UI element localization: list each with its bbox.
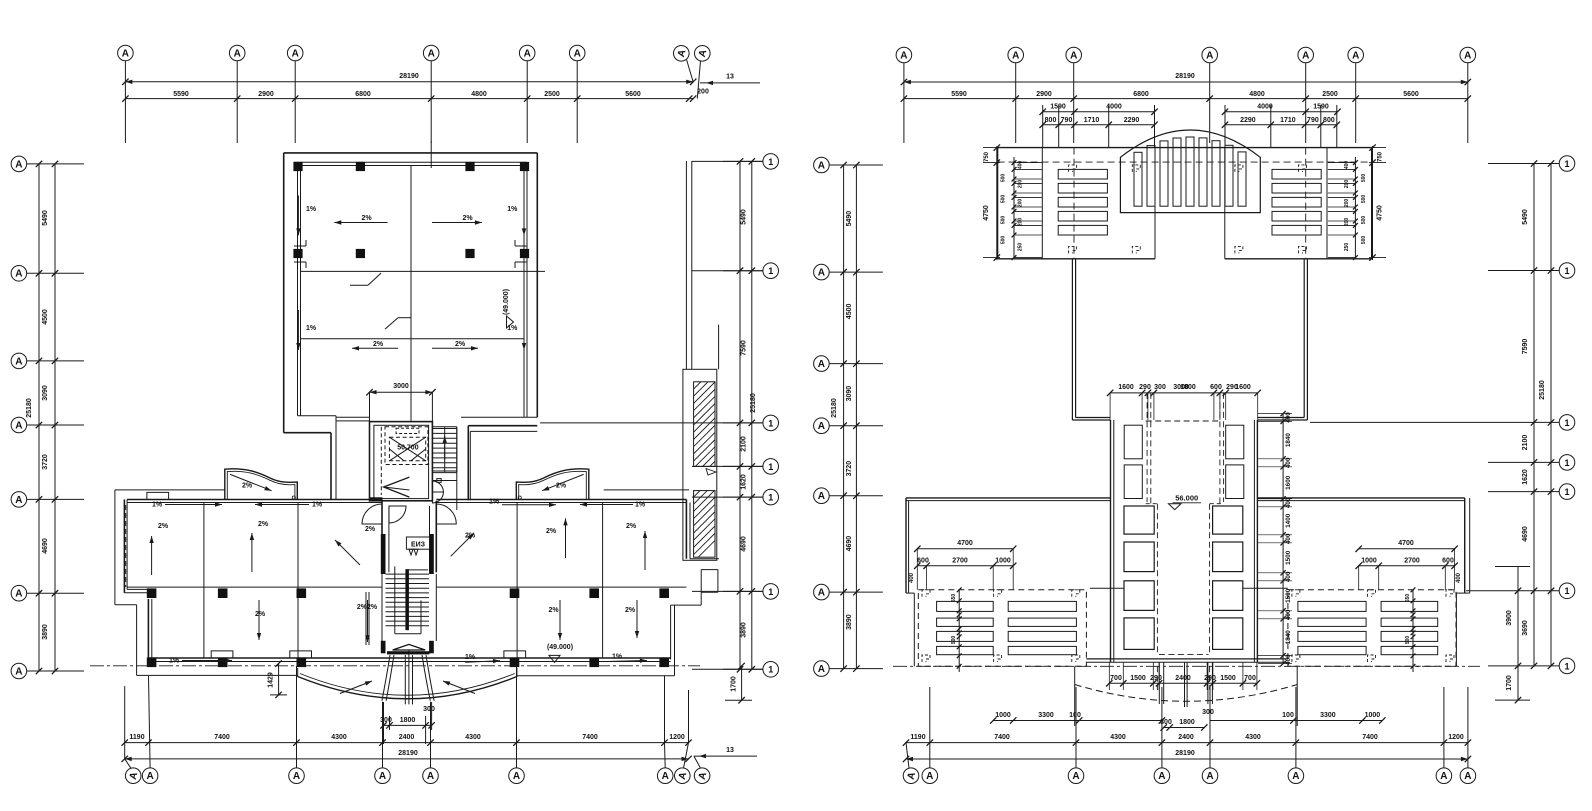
svg-text:200: 200 <box>1018 180 1024 189</box>
left plan upper block: center dividing line <box>410 166 412 421</box>
svg-text:3090: 3090 <box>846 386 853 402</box>
left plan upper block: slope arrows row1 2% <box>334 222 387 224</box>
right plan: bottom grid leader lines <box>906 743 909 769</box>
svg-text:1000: 1000 <box>995 712 1011 719</box>
svg-text:A: A <box>15 420 22 431</box>
svg-text:A: A <box>15 589 22 600</box>
svg-text:1710: 1710 <box>1280 117 1296 124</box>
svg-text:2%: 2% <box>455 341 466 348</box>
svg-text:2%: 2% <box>548 607 559 614</box>
left plan: top dimension segments 5590/2900/6800/4800/2500/5600/200 <box>125 98 693 100</box>
svg-text:1: 1 <box>768 266 773 276</box>
svg-text:25180: 25180 <box>750 393 757 413</box>
svg-text:A: A <box>1440 771 1447 782</box>
left plan lower wing: lower-left inset wall <box>147 599 149 659</box>
svg-text:1500: 1500 <box>1220 675 1236 682</box>
svg-text:A: A <box>818 268 825 279</box>
svg-text:500: 500 <box>951 636 957 645</box>
left plan: right 1700 sub-dim <box>741 666 743 700</box>
left plan vestibule: side walls <box>381 501 383 573</box>
right plan: sub-dimension line 4000/1590 right <box>1225 111 1338 113</box>
svg-text:A: A <box>1464 771 1471 782</box>
svg-text:3090: 3090 <box>42 385 49 401</box>
left plan lower wing: slope arrows top row 2% <box>151 536 153 575</box>
left plan: grid stubs over hatch <box>540 422 763 424</box>
svg-text:4690: 4690 <box>741 536 748 552</box>
svg-text:2100: 2100 <box>1522 435 1529 451</box>
svg-text:200: 200 <box>1344 199 1350 208</box>
left plan entry: door swing curves <box>382 655 390 701</box>
svg-text:1: 1 <box>768 157 773 167</box>
svg-text:500: 500 <box>1361 216 1367 225</box>
svg-text:1190: 1190 <box>910 734 925 741</box>
left plan lower wing: bottom notches <box>211 651 233 658</box>
svg-text:4300: 4300 <box>1110 734 1126 741</box>
left plan left canopy: 2% arrow <box>230 474 271 490</box>
svg-text:1%: 1% <box>612 654 623 661</box>
left plan lower wing: black columns mid row <box>147 588 157 598</box>
right plan slab left: dashed corner brackets <box>922 590 930 597</box>
left plan stairs right of shaft <box>432 426 456 428</box>
left plan: bottom canopy curve <box>298 677 517 699</box>
right plan upper structure: horizontal dashed line <box>998 161 1372 163</box>
svg-text:700: 700 <box>1244 675 1256 682</box>
right plan upper structure: left wing louvers <box>1058 169 1107 179</box>
left plan lower wing: right edge walls <box>685 500 687 559</box>
svg-text:3720: 3720 <box>42 454 49 470</box>
left plan: bottom 28190 line <box>125 758 689 760</box>
left plan upper block: 3000 dimension above shaft <box>370 391 433 393</box>
svg-text:500: 500 <box>1405 636 1411 645</box>
right plan tower: dashed corridor verticals lower with jog <box>1156 504 1158 655</box>
svg-text:A: A <box>818 664 825 675</box>
left plan upper block: slope labels row2 1% <box>297 310 299 350</box>
left plan bottom canopy: slope arrows <box>340 681 372 694</box>
left plan: left dimension chain with bubbles <box>11 156 27 172</box>
svg-text:500: 500 <box>1361 236 1367 245</box>
left plan lower wing: black columns bottom row <box>147 658 157 668</box>
hatch lines <box>694 360 715 381</box>
svg-text:500: 500 <box>1001 174 1007 183</box>
right plan upper structure: louver tick stack left <box>1013 157 1015 258</box>
svg-text:1: 1 <box>1564 487 1569 497</box>
svg-text:A: A <box>1464 50 1471 61</box>
left plan lower wing: top-left notch parapet <box>147 492 169 499</box>
left plan elevator: dashed shaft <box>385 427 428 465</box>
right plan: top dimension segments <box>904 98 1468 100</box>
right plan upper structure: louver tick stack right <box>1354 157 1356 258</box>
svg-text:A: A <box>379 771 386 782</box>
svg-text:2100: 2100 <box>741 436 748 452</box>
svg-text:A: A <box>427 771 434 782</box>
svg-text:500: 500 <box>1001 216 1007 225</box>
left plan stair shaft: door arcs right side <box>432 481 443 492</box>
svg-text:300: 300 <box>1154 384 1166 391</box>
svg-text:5490: 5490 <box>1522 209 1529 225</box>
svg-text:400: 400 <box>1285 654 1292 665</box>
svg-text:4300: 4300 <box>1245 734 1261 741</box>
left plan vestibule: canopy arcs flanking <box>362 504 382 524</box>
svg-text:1200: 1200 <box>1448 734 1464 741</box>
left plan lower wing: bottom edge walls <box>148 657 670 659</box>
svg-text:2700: 2700 <box>952 558 968 565</box>
svg-text:1: 1 <box>1564 418 1569 428</box>
svg-text:290: 290 <box>1150 675 1162 682</box>
svg-text:1620: 1620 <box>1522 469 1529 485</box>
svg-text:1000: 1000 <box>1361 558 1377 565</box>
right plan slab left: 4700 dim <box>917 548 1013 550</box>
right plan tower: top dim chain 1600/290/300... <box>1110 392 1258 394</box>
svg-text:1840: 1840 <box>1285 433 1292 448</box>
svg-text:2900: 2900 <box>1036 91 1052 98</box>
right plan: sub-dimension line 800/790/1710/2290 left <box>1043 124 1155 126</box>
svg-text:2400: 2400 <box>399 734 415 741</box>
right plan upper structure: dashed grid verticals <box>1073 148 1075 259</box>
svg-text:1600: 1600 <box>1118 384 1134 391</box>
svg-text:400: 400 <box>909 572 915 583</box>
svg-text:1: 1 <box>1564 266 1569 276</box>
svg-text:300: 300 <box>1202 709 1214 716</box>
left plan vestibule: black wall segments <box>381 534 386 574</box>
svg-text:1%: 1% <box>635 502 646 509</box>
left plan stair shaft: inner wall lines <box>374 425 429 498</box>
right plan upper structure: dashed corner brackets <box>1069 165 1077 172</box>
right plan tower: right side vertical dim chain 400/1840/... <box>1282 414 1284 664</box>
svg-text:600: 600 <box>917 558 929 565</box>
svg-text:A: A <box>122 48 129 59</box>
svg-text:28190: 28190 <box>1175 750 1195 757</box>
svg-text:4500: 4500 <box>846 304 853 320</box>
right plan slab: top edge walls <box>906 497 1111 499</box>
left plan lower wing: top edge walls <box>127 499 382 501</box>
svg-text:A: A <box>292 48 299 59</box>
svg-text:290: 290 <box>1139 384 1151 391</box>
svg-text:1: 1 <box>1564 159 1569 169</box>
right plan arch: vertical slats <box>1134 152 1142 206</box>
svg-text:A: A <box>524 48 531 59</box>
svg-text:400: 400 <box>1285 571 1292 582</box>
svg-text:400: 400 <box>1285 457 1292 468</box>
svg-text:200: 200 <box>1018 218 1024 227</box>
svg-text:1500: 1500 <box>1130 675 1146 682</box>
svg-text:5590: 5590 <box>173 91 189 98</box>
right plan tower: entry stubs <box>1158 662 1160 704</box>
svg-text:4690: 4690 <box>1522 526 1529 542</box>
left plan: right canopy curved <box>516 469 589 500</box>
right plan: sub-dimension line 2290/1710/790/800 right <box>1225 124 1337 126</box>
svg-text:2400: 2400 <box>1178 734 1194 741</box>
svg-text:A: A <box>15 159 22 170</box>
right plan upper structure: outer rectangle <box>998 147 1372 149</box>
svg-text:50.700: 50.700 <box>397 445 419 452</box>
right plan: bottom dims 300/1800 center <box>1164 727 1205 729</box>
right plan: sub-dim extension lines <box>1042 105 1044 148</box>
right plan: tower top stubs <box>1072 419 1110 421</box>
svg-text:500: 500 <box>1001 195 1007 204</box>
svg-text:A: A <box>1072 771 1079 782</box>
svg-text:A: A <box>818 491 825 502</box>
svg-text:(49.000): (49.000) <box>547 644 573 651</box>
svg-text:400: 400 <box>1344 161 1350 170</box>
svg-text:7590: 7590 <box>741 340 748 356</box>
svg-text:A: A <box>818 421 825 432</box>
svg-text:1: 1 <box>768 418 773 428</box>
svg-text:A: A <box>1158 771 1165 782</box>
svg-text:1%: 1% <box>152 502 163 509</box>
svg-text:400: 400 <box>1285 497 1292 508</box>
right plan: section dash-dot line <box>893 665 1480 667</box>
left plan: bottom 13 leader <box>694 755 757 757</box>
svg-text:1: 1 <box>768 587 773 597</box>
svg-text:5590: 5590 <box>951 91 967 98</box>
svg-text:1: 1 <box>1564 586 1569 596</box>
left plan: top dimension line 28190 <box>125 81 693 83</box>
svg-text:25180: 25180 <box>831 398 838 418</box>
svg-text:4690: 4690 <box>42 538 49 554</box>
svg-text:5600: 5600 <box>625 91 641 98</box>
left plan: top-right 13 leader <box>700 82 760 84</box>
svg-text:A: A <box>1292 771 1299 782</box>
right plan tower: square rooms left column <box>1124 506 1154 534</box>
svg-text:2%: 2% <box>361 215 372 222</box>
right plan: right dimension chain with bubbles <box>1559 156 1575 172</box>
right plan slab left: louver slats <box>937 601 994 611</box>
svg-text:400: 400 <box>1285 533 1292 544</box>
svg-text:1000: 1000 <box>995 558 1011 565</box>
svg-text:200: 200 <box>697 89 709 96</box>
left plan vestibule: interior door arc <box>389 506 406 523</box>
right plan upper structure: right wing louvers <box>1272 169 1321 179</box>
left plan entry: black threshold bar <box>387 651 430 654</box>
svg-text:13: 13 <box>726 747 734 754</box>
left plan upper block: interior horizontal lines <box>301 270 546 272</box>
svg-text:2%2%: 2%2% <box>357 604 378 611</box>
svg-text:1590: 1590 <box>1050 104 1066 111</box>
svg-text:A: A <box>15 666 22 677</box>
right plan: bottom grid bubbles <box>901 766 920 785</box>
svg-text:A: A <box>1070 50 1077 61</box>
svg-text:1190: 1190 <box>129 734 144 741</box>
svg-text:1600: 1600 <box>1285 475 1292 490</box>
svg-text:2%: 2% <box>255 611 266 618</box>
svg-text:2%: 2% <box>373 341 384 348</box>
right plan slab left: 600/2700/1000 dim <box>917 565 1013 567</box>
left plan upper block: outer wall rectangle <box>284 152 538 154</box>
right plan upper structure: wing inner verticals <box>1041 148 1043 259</box>
svg-text:4500: 4500 <box>42 309 49 325</box>
svg-text:1: 1 <box>1564 458 1569 468</box>
svg-text:A: A <box>574 48 581 59</box>
svg-text:(49.000): (49.000) <box>503 289 510 315</box>
svg-text:2%: 2% <box>258 521 269 528</box>
right plan slab right: louver slats <box>1298 601 1366 611</box>
svg-text:7400: 7400 <box>994 734 1010 741</box>
left plan lower wing: outer parapet boundary <box>115 489 225 491</box>
svg-text:A: A <box>513 771 520 782</box>
left plan: bottom main dimension chain <box>125 742 689 744</box>
left plan elevator: dashed counterweight box <box>396 428 419 433</box>
svg-text:2%: 2% <box>365 526 376 533</box>
svg-text:790: 790 <box>1307 117 1319 124</box>
svg-text:4700: 4700 <box>1398 540 1414 547</box>
right plan tower: bottom slab edge lines <box>1086 658 1288 660</box>
right plan: bottom main dimension chain <box>906 742 1468 744</box>
svg-text:1500: 1500 <box>1285 550 1292 565</box>
svg-text:750: 750 <box>1378 151 1384 162</box>
svg-text:A: A <box>1302 50 1309 61</box>
svg-text:5490: 5490 <box>741 209 748 225</box>
svg-text:2500: 2500 <box>1322 91 1338 98</box>
svg-text:2700: 2700 <box>1404 558 1420 565</box>
svg-text:500: 500 <box>1361 195 1367 204</box>
svg-text:A: A <box>1352 50 1359 61</box>
svg-text:A: A <box>662 771 669 782</box>
svg-text:4300: 4300 <box>465 734 481 741</box>
right plan tower: side walls <box>1110 420 1112 662</box>
svg-text:ЕИЗ: ЕИЗ <box>411 542 426 549</box>
svg-text:25180: 25180 <box>1539 380 1546 400</box>
left plan lower wing: interior vertical lines <box>203 503 205 659</box>
left plan lower wing: dashed inner line left <box>125 505 127 587</box>
svg-text:4800: 4800 <box>471 91 487 98</box>
svg-text:1%: 1% <box>169 658 180 665</box>
svg-text:1%: 1% <box>507 206 518 213</box>
svg-text:400: 400 <box>1285 412 1292 423</box>
svg-text:7400: 7400 <box>582 734 598 741</box>
svg-text:2290: 2290 <box>1240 117 1256 124</box>
svg-text:A: A <box>15 356 22 367</box>
svg-text:2%: 2% <box>626 523 637 530</box>
svg-text:2290: 2290 <box>1124 117 1140 124</box>
svg-text:4690: 4690 <box>846 536 853 552</box>
svg-text:4750: 4750 <box>983 205 990 221</box>
svg-text:6800: 6800 <box>1133 91 1149 98</box>
svg-text:1: 1 <box>768 665 773 675</box>
left plan vestibule: EU3 boxed label with triangles <box>406 537 429 549</box>
svg-text:550: 550 <box>1405 594 1411 603</box>
right plan upper structure: central arch <box>1120 130 1260 213</box>
svg-text:200: 200 <box>1344 180 1350 189</box>
left plan upper block: bottom-right step walls <box>461 416 537 418</box>
svg-text:550: 550 <box>951 594 957 603</box>
left plan upper block: slope break symbols <box>350 284 368 286</box>
right plan: 3900 and 1700 sub-dims right <box>1517 567 1519 701</box>
svg-text:3890: 3890 <box>42 624 49 640</box>
svg-text:1800: 1800 <box>400 717 416 724</box>
svg-text:750: 750 <box>984 151 990 162</box>
right plan upper structure: 750/4750 dim right <box>1372 146 1374 260</box>
svg-text:1000: 1000 <box>1365 712 1381 719</box>
right plan: left dimension chain with bubbles <box>814 157 830 173</box>
svg-text:100: 100 <box>1282 712 1294 719</box>
svg-text:250: 250 <box>1344 243 1350 252</box>
svg-text:1500: 1500 <box>1285 588 1292 603</box>
right plan slab: right louver area dashed outline <box>1288 590 1456 667</box>
right plan: connector corridor walls <box>1071 259 1073 420</box>
left plan: hatched neighbor wall strip <box>685 161 687 369</box>
svg-text:A: A <box>293 771 300 782</box>
svg-text:3720: 3720 <box>846 461 853 477</box>
left plan: left canopy curved <box>225 469 297 500</box>
right plan tower: square rooms right column <box>1213 506 1243 534</box>
svg-text:3900: 3900 <box>1506 610 1513 626</box>
left plan upper block: black columns <box>293 162 302 171</box>
right plan slab: right edge walls <box>1464 498 1466 593</box>
svg-text:1710: 1710 <box>1084 117 1100 124</box>
svg-text:400: 400 <box>1018 161 1024 170</box>
svg-text:800: 800 <box>1323 117 1335 124</box>
svg-text:A: A <box>428 48 435 59</box>
left plan upper block: bottom-left step walls <box>284 432 331 434</box>
left plan lower wing: right boundary step shapes <box>690 558 719 560</box>
svg-text:600: 600 <box>1210 384 1222 391</box>
right plan tower: dashed corridor verticals upper <box>1146 393 1148 502</box>
left plan right canopy: 2% arrow <box>542 474 583 490</box>
svg-text:13: 13 <box>726 74 734 81</box>
right plan: bottom dims 100/3300/1000 right <box>1210 720 1382 722</box>
svg-text:3300: 3300 <box>1320 712 1336 719</box>
svg-text:2%: 2% <box>242 483 253 490</box>
svg-text:300: 300 <box>380 717 392 724</box>
right plan: sub-dimension line 1590/4000 left <box>1043 111 1155 113</box>
left plan: top grid bubbles A <box>118 45 134 61</box>
left plan: right dimension chain with bubbles <box>763 154 779 170</box>
svg-text:1%: 1% <box>489 499 500 506</box>
right plan upper structure: 750/4750 dim left <box>996 146 998 260</box>
right plan slab: center tick stacks <box>958 590 960 672</box>
svg-text:3300: 3300 <box>1038 712 1054 719</box>
right plan slab right: dashed corner brackets <box>1292 590 1300 597</box>
svg-text:4750: 4750 <box>1377 205 1384 221</box>
right plan slab right: 4700 dim <box>1359 548 1455 550</box>
left plan upper block: wall notches at mid columns <box>294 245 306 247</box>
left plan lower wing: left edge walls <box>123 500 125 593</box>
right plan slab: left edge walls <box>905 498 907 593</box>
left plan lower wing: interior mid horizontal line <box>127 586 382 588</box>
svg-text:4300: 4300 <box>331 734 347 741</box>
left plan stair shaft: outer walls <box>370 422 433 501</box>
svg-text:3890: 3890 <box>846 614 853 630</box>
left plan: section dash-dot line <box>90 665 700 667</box>
svg-text:A: A <box>234 48 241 59</box>
svg-text:1700: 1700 <box>731 676 738 692</box>
svg-text:2%: 2% <box>556 483 567 490</box>
svg-text:7590: 7590 <box>1522 339 1529 355</box>
left plan stair shaft: black wall chunk bottom-left <box>370 497 383 501</box>
svg-text:A: A <box>146 771 153 782</box>
svg-text:200: 200 <box>1344 218 1350 227</box>
svg-text:600: 600 <box>1442 558 1454 565</box>
left plan: bottom grid bubbles <box>124 766 143 785</box>
svg-text:2500: 2500 <box>544 91 560 98</box>
svg-text:2%: 2% <box>462 215 473 222</box>
svg-text:5600: 5600 <box>1403 91 1419 98</box>
svg-text:2%: 2% <box>465 533 476 540</box>
svg-text:A: A <box>1206 50 1213 61</box>
right plan tower: interior mid line segments <box>1090 587 1124 589</box>
svg-text:800: 800 <box>1045 117 1057 124</box>
svg-text:7400: 7400 <box>1362 734 1378 741</box>
svg-text:1200: 1200 <box>669 734 685 741</box>
left plan upper block: slope arrows row2 2% <box>352 347 398 349</box>
svg-text:3690: 3690 <box>1522 620 1529 636</box>
right plan slab: left louver area dashed outline <box>918 590 1086 667</box>
svg-text:1%: 1% <box>312 502 323 509</box>
svg-text:A: A <box>1012 50 1019 61</box>
left plan lower wing: slope arrows bottom row 2% <box>258 600 260 640</box>
svg-text:500: 500 <box>1361 174 1367 183</box>
svg-text:56.000: 56.000 <box>1175 494 1198 503</box>
